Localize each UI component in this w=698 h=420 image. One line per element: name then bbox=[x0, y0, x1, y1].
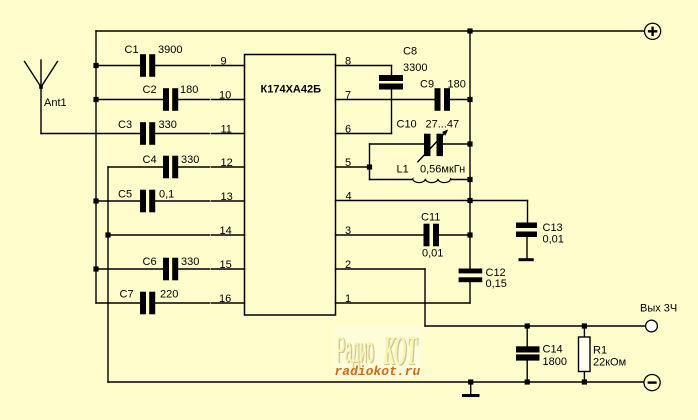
svg-text:22кОм: 22кОм bbox=[593, 357, 626, 369]
svg-text:Вых 3Ч: Вых 3Ч bbox=[640, 303, 677, 315]
svg-text:3300: 3300 bbox=[403, 62, 427, 74]
svg-text:К174ХА42Б: К174ХА42Б bbox=[261, 84, 322, 96]
svg-text:27...47: 27...47 bbox=[426, 119, 460, 131]
svg-text:0,1: 0,1 bbox=[159, 189, 174, 201]
svg-text:8: 8 bbox=[345, 56, 351, 68]
svg-text:5: 5 bbox=[345, 157, 351, 169]
svg-text:0,01: 0,01 bbox=[422, 248, 443, 260]
svg-text:180: 180 bbox=[448, 79, 466, 91]
svg-text:radiokot.ru: radiokot.ru bbox=[335, 364, 421, 379]
svg-text:2: 2 bbox=[345, 259, 351, 271]
svg-text:0,56мкГн: 0,56мкГн bbox=[420, 164, 465, 176]
svg-text:C11: C11 bbox=[421, 212, 440, 224]
svg-text:13: 13 bbox=[221, 191, 233, 203]
svg-text:0,15: 0,15 bbox=[486, 278, 507, 290]
svg-text:C6: C6 bbox=[143, 256, 157, 268]
svg-text:1800: 1800 bbox=[543, 356, 567, 368]
svg-text:0,01: 0,01 bbox=[543, 234, 564, 246]
svg-text:330: 330 bbox=[181, 256, 199, 268]
svg-text:L1: L1 bbox=[397, 164, 409, 176]
svg-text:C7: C7 bbox=[120, 289, 134, 301]
svg-text:12: 12 bbox=[221, 157, 233, 169]
svg-text:C14: C14 bbox=[543, 344, 563, 356]
svg-text:220: 220 bbox=[160, 289, 178, 301]
svg-text:14: 14 bbox=[220, 225, 232, 237]
svg-text:C5: C5 bbox=[118, 189, 132, 201]
svg-text:C2: C2 bbox=[143, 84, 157, 96]
svg-text:C3: C3 bbox=[118, 119, 132, 131]
svg-text:16: 16 bbox=[219, 293, 231, 305]
svg-text:7: 7 bbox=[345, 90, 351, 102]
svg-text:6: 6 bbox=[345, 124, 351, 136]
svg-text:9: 9 bbox=[221, 56, 227, 68]
svg-text:C8: C8 bbox=[403, 45, 417, 57]
svg-text:C1: C1 bbox=[125, 44, 139, 56]
svg-text:C4: C4 bbox=[143, 154, 157, 166]
svg-text:C9: C9 bbox=[420, 79, 434, 91]
svg-text:10: 10 bbox=[219, 90, 231, 102]
svg-text:3: 3 bbox=[345, 225, 351, 237]
svg-text:3900: 3900 bbox=[158, 44, 182, 56]
svg-text:1: 1 bbox=[345, 293, 351, 305]
svg-text:11: 11 bbox=[221, 124, 232, 136]
svg-text:4: 4 bbox=[346, 191, 352, 203]
svg-text:C10: C10 bbox=[397, 119, 417, 131]
svg-text:330: 330 bbox=[181, 154, 199, 166]
svg-text:180: 180 bbox=[180, 84, 198, 96]
svg-text:R1: R1 bbox=[593, 345, 607, 357]
svg-text:C13: C13 bbox=[543, 222, 563, 234]
svg-text:330: 330 bbox=[159, 119, 177, 131]
svg-text:Ant1: Ant1 bbox=[44, 97, 67, 109]
svg-text:15: 15 bbox=[220, 259, 232, 271]
